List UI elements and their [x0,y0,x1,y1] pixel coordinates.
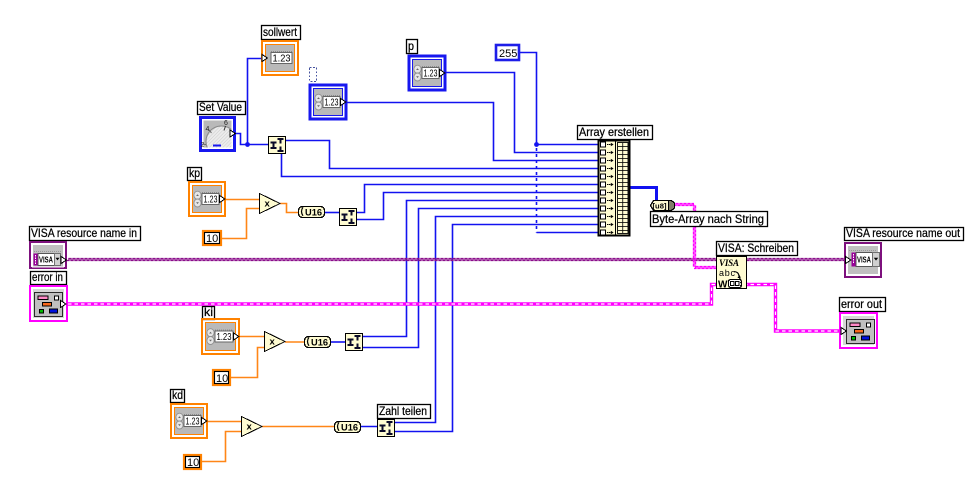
numeric control kd [171,404,207,438]
build array node (Array erstellen) [599,141,630,236]
VISA Write node icon [717,257,747,291]
svg-text:kd: kd [172,388,183,402]
wire split4 lo to array row11 [395,225,598,432]
svg-text:2: 2 [201,142,205,149]
multiply node ki x10 [265,332,286,352]
to-U16 conversion kp [299,207,325,219]
label Byte-Array nach String [651,212,768,227]
wire sollwert branch [248,59,265,145]
split number node (Set Value word) [269,137,286,154]
VISA resource name out terminal [845,243,881,277]
svg-text:x: x [270,337,276,348]
svg-text:VISA resource name in: VISA resource name in [31,226,137,240]
wire multiply kp to U16 [280,204,298,213]
wire string byte-array to VISA write (pink) [674,204,694,206]
wire multiply ki to U16 [285,341,304,343]
svg-text:Zahl teilen: Zahl teilen [379,404,427,418]
wire split1 lo to array row5 [282,153,599,177]
constant 10 (kd) [184,455,201,469]
svg-text:Array erstellen: Array erstellen [579,125,649,139]
label error in [31,270,67,285]
wire 255 branch dashed to array row12 [536,148,538,233]
svg-text:x: x [265,199,271,210]
wire p control to array row2 [446,73,598,153]
split number node ki [346,334,363,351]
svg-text:1.23: 1.23 [186,417,200,428]
svg-text:[u8]: [u8] [653,202,668,211]
wire const 10 ki to multiply [231,348,264,378]
svg-text:VISA: VISA [719,258,739,268]
error out cluster terminal [840,313,877,348]
wire const 10 kp to multiply [222,209,259,239]
wire const 255 to array row1 [520,53,537,145]
svg-text:x: x [247,422,253,433]
wire U16 kd to split4 [360,426,377,428]
svg-text:error out: error out [841,297,883,311]
numeric control kp [189,182,225,216]
error in cluster terminal [30,286,67,321]
wire multiply kd to U16 [262,426,334,428]
label sollwert [262,25,301,40]
svg-text:1.23: 1.23 [204,195,218,206]
split number node kd (Zahl teilen) [378,420,395,437]
wire const 10 kd to multiply [202,432,241,462]
wire split2 hi to array row6 [357,185,598,213]
label error out [840,297,886,312]
label Zahl teilen [378,404,431,419]
label Set Value [198,100,246,115]
wire kp control to multiply [225,199,259,201]
label VISA: Schreiben [717,241,798,256]
numeric control unnamed (blue) [310,85,346,119]
to-U16 conversion ki [305,337,331,349]
svg-text:U16: U16 [305,208,322,219]
wire ki control to multiply [240,336,264,338]
svg-text:4: 4 [206,126,210,133]
svg-text:VISA: Schreiben: VISA: Schreiben [718,241,794,255]
selection marquee dashed box [310,68,317,82]
label kd [171,388,185,403]
constant 10 (ki) [213,370,230,385]
svg-text:10: 10 [216,373,228,385]
VISA resource name in terminal [30,242,67,268]
svg-text:Set Value: Set Value [199,100,242,114]
split number node kp [340,209,357,226]
svg-text:error in: error in [32,270,63,284]
svg-text:10: 10 [206,233,218,245]
numeric control p [409,56,445,90]
svg-text:6: 6 [224,120,228,127]
svg-text:sollwert: sollwert [263,25,298,39]
svg-text:Byte-Array nach String: Byte-Array nach String [652,212,764,226]
wire unnamed control to array row3 [347,103,598,161]
constant 10 (kp) [203,231,221,245]
wire VISA resource (purple) [67,259,847,261]
svg-text:1.23: 1.23 [273,54,291,65]
junction dot B [534,142,539,147]
wire split1 hi to array row4 [286,141,598,169]
svg-text:p: p [408,39,414,53]
svg-text:U16: U16 [311,338,328,349]
wire array output to byte-array node (thick u8 array) [630,188,657,201]
svg-text:1.23: 1.23 [325,98,339,109]
svg-text:VISA: VISA [39,256,53,265]
label ki [203,305,215,320]
multiply node kd x10 [242,417,263,437]
to-U16 conversion kd [335,422,361,434]
svg-text:U16: U16 [341,423,358,434]
label kp [188,166,202,181]
wire error cluster in to VISA write to error out [68,285,841,332]
svg-text:255: 255 [499,48,517,60]
indicator terminal sollwert [262,41,298,75]
label VISA resource name in [30,226,141,241]
svg-text:10: 10 [187,457,199,469]
svg-text:1.23: 1.23 [424,69,438,80]
numeric control ki [202,319,239,354]
wire split3 hi to array row8 [363,201,598,337]
svg-text:1.23: 1.23 [217,332,232,343]
svg-text:W: W [718,280,728,291]
wire split3 lo to array row9 [363,209,598,348]
label VISA resource name out [845,226,964,241]
wire Set Value to split input [236,134,268,145]
svg-text:ki: ki [204,305,213,319]
wire split4 hi to array row10 [395,217,598,423]
svg-text:kp: kp [189,166,200,180]
wire kd control to multiply [208,421,241,423]
knob control terminal Set Value [201,118,238,158]
byte-array-to-string node [651,201,675,211]
multiply node kp x10 [260,194,281,214]
wire U16 kp to split2 [324,212,339,214]
wire U16 ki to split3 [330,341,345,343]
svg-text:VISA: VISA [857,256,871,265]
label p [407,39,418,54]
constant 255 [496,45,519,60]
label Array erstellen [578,125,653,140]
wire split2 lo to array row7 [357,193,598,220]
svg-text:abc: abc [719,268,736,278]
svg-text:VISA resource name out: VISA resource name out [846,226,961,240]
junction dot A [245,142,250,147]
